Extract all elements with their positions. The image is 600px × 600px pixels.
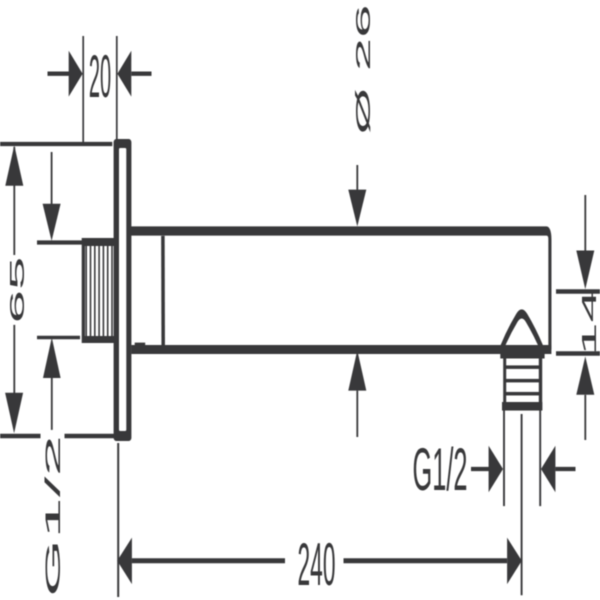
outlet G1/2 right arrow <box>541 446 555 493</box>
wall plate flange <box>114 139 132 441</box>
dim 240 left arrow <box>117 538 132 585</box>
dim 240 line right segment <box>344 560 508 562</box>
dim 240 left extension line <box>117 443 119 597</box>
dim 26 top arrow <box>356 165 358 190</box>
dim 20 left arrow <box>48 73 70 75</box>
dim 20 right arrow <box>131 73 151 75</box>
wall thread top pointer <box>51 152 53 204</box>
dim 14 upper arrow <box>584 195 586 251</box>
dim 20 left extension line <box>82 36 84 144</box>
svg-text:Ø 26: Ø 26 <box>353 4 375 134</box>
outlet collar <box>500 351 544 359</box>
outlet thread bottom band <box>502 402 542 411</box>
svg-text:240: 240 <box>298 533 336 599</box>
outlet thread stripes <box>506 365 539 369</box>
dim 14 lower extension line <box>556 352 600 354</box>
tube joint line <box>161 236 165 345</box>
dim 14 upper extension line <box>556 291 600 293</box>
outlet center line <box>521 414 523 595</box>
wall thread bottom pointer <box>43 338 61 379</box>
dim 65 bottom arrow <box>5 393 23 434</box>
outlet extension lines <box>503 410 505 506</box>
svg-text:G1/2: G1/2 <box>41 435 65 597</box>
outlet thread body <box>503 359 506 411</box>
svg-text:14: 14 <box>579 289 600 356</box>
dim 65 line <box>13 147 15 255</box>
dim 240 right arrow <box>507 538 522 585</box>
wall thread box <box>82 238 115 343</box>
outlet G1/2 left arrow <box>471 468 489 470</box>
dim 26 bottom arrow <box>348 350 366 390</box>
dim 14 lower arrow <box>576 356 594 394</box>
wall line top (65 upper extension) <box>0 143 112 145</box>
dim 20 right extension line <box>116 36 118 139</box>
wall thread bottom line <box>37 337 80 339</box>
65 lower extension line <box>0 435 41 437</box>
svg-text:20: 20 <box>89 45 111 111</box>
dim 240 line left segment <box>132 560 285 562</box>
svg-text:G1/2: G1/2 <box>413 438 468 504</box>
outlet dome <box>501 314 542 349</box>
wall thread top line <box>37 241 82 243</box>
spout tube top and right edge <box>130 231 550 350</box>
wall thread lines <box>86 246 112 336</box>
spout tube bottom line <box>131 348 551 351</box>
svg-text:65: 65 <box>7 257 29 324</box>
dim 65 top arrow <box>5 145 23 186</box>
tube bottom notch <box>135 343 146 347</box>
